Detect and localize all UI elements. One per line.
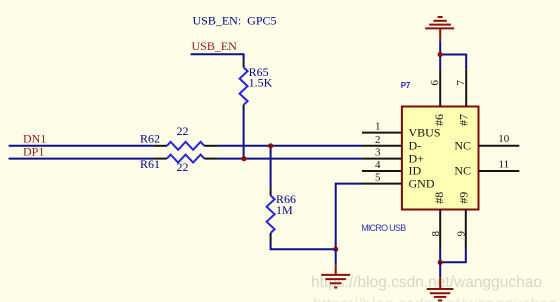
- pin 1 (VBUS): [362, 121, 441, 140]
- resistor R62: [140, 124, 217, 150]
- svg-text:R62: R62: [140, 132, 160, 146]
- svg-text:3: 3: [375, 147, 381, 159]
- svg-text:DN1: DN1: [23, 131, 46, 145]
- junction R66/DN1: [268, 143, 273, 148]
- resistor R61: [140, 155, 217, 174]
- wire pin 9 to bottom junction: [440, 249, 466, 263]
- svg-text:5: 5: [375, 172, 381, 184]
- svg-text:#8: #8: [432, 192, 446, 204]
- svg-text:1: 1: [375, 121, 381, 133]
- svg-text:GND: GND: [409, 176, 435, 190]
- ground symbol G3 (top, inverted): [425, 17, 454, 41]
- junction R65/DP1: [241, 156, 246, 161]
- junction GND node: [333, 247, 338, 252]
- wire DN1: [9, 145, 154, 147]
- svg-text:USB_EN: USB_EN: [192, 39, 238, 53]
- wire R66 to GND node: [271, 242, 336, 250]
- wire USB_EN: [191, 54, 244, 61]
- wire junction to pin 7: [440, 55, 466, 70]
- wire R61 to pin 3: [217, 158, 362, 160]
- svg-text:#9: #9: [457, 192, 471, 204]
- junction bottom: [438, 260, 443, 265]
- pin 10 (NC): [454, 133, 519, 152]
- svg-text:22: 22: [177, 124, 189, 138]
- pin 3 (D+): [362, 147, 424, 166]
- svg-text:P7: P7: [401, 81, 411, 90]
- svg-text:7: 7: [455, 79, 467, 85]
- wire R62 to pin 2: [217, 145, 362, 147]
- svg-text:https://blog.csdn.net/wangguch: https://blog.csdn.net/wangguchao: [311, 274, 542, 291]
- svg-text:NC: NC: [454, 164, 471, 178]
- pin 2 (D-): [362, 134, 421, 153]
- resistor R65: [240, 62, 273, 110]
- wire pin 8 to bottom junction: [439, 249, 441, 263]
- svg-text:8: 8: [430, 230, 442, 236]
- wire R65 to DP1: [243, 110, 245, 159]
- svg-text:2: 2: [375, 134, 381, 146]
- ground symbol G1: [321, 249, 350, 287]
- svg-text:VBUS: VBUS: [409, 125, 441, 139]
- svg-text:9: 9: [455, 230, 467, 236]
- svg-text:22: 22: [177, 160, 189, 174]
- svg-text:11: 11: [499, 158, 510, 170]
- svg-text:USB_EN: GPC5: USB_EN: GPC5: [193, 13, 277, 27]
- pin 4 (ID): [362, 159, 421, 178]
- pin 5 (GND): [362, 172, 435, 191]
- svg-text:4: 4: [375, 159, 381, 171]
- connector P7 body: [402, 107, 479, 210]
- resistor R66: [267, 188, 296, 241]
- svg-text:MICRO USB: MICRO USB: [361, 223, 406, 233]
- wire GND node to pin 5: [336, 184, 362, 250]
- pin 8 (#8): [430, 192, 446, 249]
- svg-text:NC: NC: [454, 139, 471, 153]
- svg-text:10: 10: [498, 133, 510, 145]
- pin 6 (#6): [429, 69, 446, 126]
- svg-text:R61: R61: [140, 157, 160, 171]
- wire DN1 to R66: [270, 146, 272, 188]
- junction top: [438, 52, 443, 57]
- svg-text:#7: #7: [457, 114, 471, 126]
- ground symbol G2: [427, 262, 454, 300]
- pin 9 (#9): [455, 192, 470, 249]
- svg-text:#6: #6: [432, 114, 446, 126]
- pin 11 (NC): [454, 158, 519, 177]
- svg-text:1M: 1M: [276, 203, 293, 217]
- wire junction to pin 6: [439, 55, 441, 70]
- svg-text:6: 6: [429, 79, 441, 85]
- wire top ground to junction: [439, 41, 441, 55]
- wire DP1: [9, 158, 154, 160]
- svg-text:1.5K: 1.5K: [249, 76, 273, 90]
- pin 7 (#7): [455, 69, 471, 126]
